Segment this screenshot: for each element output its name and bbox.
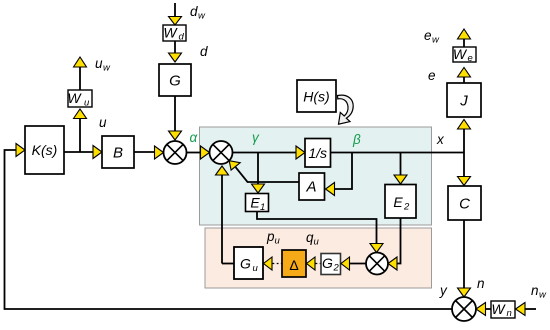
svg-text:G: G xyxy=(322,255,333,271)
block 1/s xyxy=(305,139,331,168)
svg-text:y: y xyxy=(439,283,448,298)
summing junction sum1 xyxy=(164,141,187,164)
block B xyxy=(102,136,134,168)
arrowhead into mult top xyxy=(370,244,383,253)
arrowhead into Wd xyxy=(169,17,182,26)
arrowhead into ysum top xyxy=(458,288,471,297)
wire: dw input down to Wd xyxy=(174,3,176,17)
wire: Wn to arrow xyxy=(486,308,492,310)
arrowhead into G xyxy=(169,53,182,62)
arrowhead into We bottom xyxy=(458,68,471,78)
node label beta xyxy=(352,132,361,147)
svg-text:w: w xyxy=(432,35,440,46)
svg-text:G: G xyxy=(240,256,251,272)
node label uw xyxy=(95,56,111,74)
arrowhead uw output xyxy=(74,57,87,67)
arrowhead into mult right xyxy=(388,257,397,270)
node label u xyxy=(99,115,107,130)
arrowhead into G2 right xyxy=(341,257,350,270)
panel: state-space (blue) region xyxy=(200,127,432,225)
svg-text:W: W xyxy=(453,46,468,62)
svg-text:w: w xyxy=(198,11,206,22)
block We xyxy=(453,46,476,64)
wire: E2 down and left into mult right xyxy=(397,218,401,264)
arrowhead into sum2 left xyxy=(201,146,210,159)
arrowhead into sum2 bottom xyxy=(216,166,229,175)
svg-text:2: 2 xyxy=(403,202,410,213)
arrowhead diagonal into sum2 xyxy=(229,161,240,170)
node label y xyxy=(439,283,448,298)
wire: u branch up to Wu xyxy=(79,119,81,153)
svg-text:u: u xyxy=(99,115,107,130)
wire: x junction up to J xyxy=(463,129,465,153)
svg-text:d: d xyxy=(190,4,198,19)
node label pu xyxy=(266,229,281,247)
svg-text:n: n xyxy=(507,308,512,319)
svg-text:C: C xyxy=(459,196,470,213)
svg-text:e: e xyxy=(424,28,432,43)
arrowhead into K(s) xyxy=(16,144,25,157)
wire: x junction down to C xyxy=(463,153,465,177)
svg-text:n: n xyxy=(531,283,539,298)
node label gamma xyxy=(252,130,260,145)
block J xyxy=(447,83,481,117)
svg-text:K(s): K(s) xyxy=(32,142,58,158)
block Wn xyxy=(491,301,515,319)
block Gu xyxy=(234,247,263,279)
arrowhead into sum1 left xyxy=(155,146,164,159)
arrowhead into C top xyxy=(458,177,471,186)
wire: feedback loop y to K(s) xyxy=(5,150,453,309)
node label alpha xyxy=(190,130,199,145)
svg-text:u: u xyxy=(253,263,259,274)
wire: Gu out left and up xyxy=(222,263,234,265)
svg-text:W: W xyxy=(163,25,178,41)
wire: A out to sum2 diagonal xyxy=(236,167,299,182)
svg-text:n: n xyxy=(477,276,485,291)
block G2 xyxy=(321,254,341,275)
block Wd xyxy=(163,25,186,43)
arrowhead into Wu bottom xyxy=(74,109,87,119)
block A xyxy=(299,173,325,200)
wire: beta line 1/s to x junction xyxy=(331,152,465,154)
summing junction sum2 xyxy=(210,141,233,164)
svg-text:u: u xyxy=(95,56,103,71)
svg-text:w: w xyxy=(539,290,547,301)
wire: Gu up into sum2 bottom xyxy=(221,175,223,264)
summing junction ysum xyxy=(452,297,476,321)
svg-text:u: u xyxy=(275,236,281,247)
wire: mult to G2 arrow xyxy=(350,263,367,265)
wire: We up to ew xyxy=(463,39,465,47)
arrowhead into A right xyxy=(326,183,335,196)
wire: gamma branch down to E1 xyxy=(257,153,259,185)
block K(s) xyxy=(25,126,64,174)
node label dw xyxy=(190,4,206,22)
wire: K(s) to B xyxy=(64,151,93,153)
svg-text:Δ: Δ xyxy=(289,257,298,273)
node label x xyxy=(436,132,445,147)
svg-text:e: e xyxy=(428,68,436,83)
block E2 xyxy=(385,185,416,219)
wire: sum1 to sum2 xyxy=(187,152,201,154)
wire: Wd to G xyxy=(174,41,176,53)
svg-text:H(s): H(s) xyxy=(303,89,329,105)
svg-text:G: G xyxy=(169,73,181,90)
arrowhead into E1 top xyxy=(252,184,265,193)
node label qu xyxy=(306,230,320,248)
svg-text:J: J xyxy=(459,93,468,110)
wire: Wu up to uw output xyxy=(79,67,81,90)
svg-text:E: E xyxy=(250,195,260,211)
wire: dotted delta to Gu arrow xyxy=(273,263,282,265)
svg-text:W: W xyxy=(491,301,506,317)
arrowhead into Wn right xyxy=(516,303,526,316)
svg-text:2: 2 xyxy=(333,263,340,274)
svg-text:d: d xyxy=(179,32,185,43)
wire: B to sum1 xyxy=(134,151,155,153)
svg-text:1/s: 1/s xyxy=(308,145,327,161)
svg-text:β: β xyxy=(352,132,361,147)
svg-text:α: α xyxy=(190,130,199,145)
svg-text:B: B xyxy=(113,145,123,162)
svg-text:E: E xyxy=(393,194,403,210)
arrowhead into 1/s xyxy=(296,146,305,159)
wire: branch down to A input xyxy=(335,153,353,190)
arrowhead into J bottom xyxy=(458,120,471,130)
panel: uncertainty (orange) region xyxy=(205,228,432,288)
svg-text:1: 1 xyxy=(260,202,265,213)
wire: nw input stub xyxy=(525,308,536,310)
wire: C down to ysum xyxy=(463,220,465,288)
arrowhead ew output xyxy=(458,29,471,39)
arrowhead into sum1 top xyxy=(169,131,182,140)
block E1 xyxy=(246,194,269,214)
node label n xyxy=(477,276,485,291)
node label nw xyxy=(531,283,547,301)
svg-text:d: d xyxy=(200,44,208,59)
wire: beta branch down to E2 xyxy=(400,153,402,176)
block H(s) xyxy=(297,80,336,112)
arrowhead Wn into ysum right xyxy=(476,303,486,316)
wire: sum2 to 1/s xyxy=(233,152,297,154)
node label d xyxy=(200,44,208,59)
svg-text:x: x xyxy=(436,132,445,147)
svg-text:A: A xyxy=(305,179,316,196)
arrowhead into B xyxy=(93,146,102,159)
arrowhead into Gu right xyxy=(264,257,273,270)
block G xyxy=(159,64,191,96)
wire: J up to We xyxy=(463,77,465,83)
svg-text:u: u xyxy=(314,237,320,248)
wire: G down to sum1 xyxy=(174,96,176,131)
svg-text:u: u xyxy=(84,98,90,109)
block Wu xyxy=(67,90,92,109)
node label ew xyxy=(424,28,440,46)
curved arrow beside H(s) xyxy=(338,95,354,124)
svg-text:w: w xyxy=(103,63,111,74)
arrowhead into Delta right xyxy=(307,257,316,270)
node label e xyxy=(428,68,436,83)
multiplier junction xyxy=(366,253,388,275)
block C xyxy=(448,186,481,220)
block Delta (uncertainty) xyxy=(282,250,306,277)
arrowhead into E2 top xyxy=(394,175,407,184)
svg-text:e: e xyxy=(468,53,473,64)
wire: E1 out down right down to mult xyxy=(257,212,377,244)
wire: dotted G2 to Delta arrow xyxy=(316,263,321,265)
svg-text:W: W xyxy=(67,90,82,106)
